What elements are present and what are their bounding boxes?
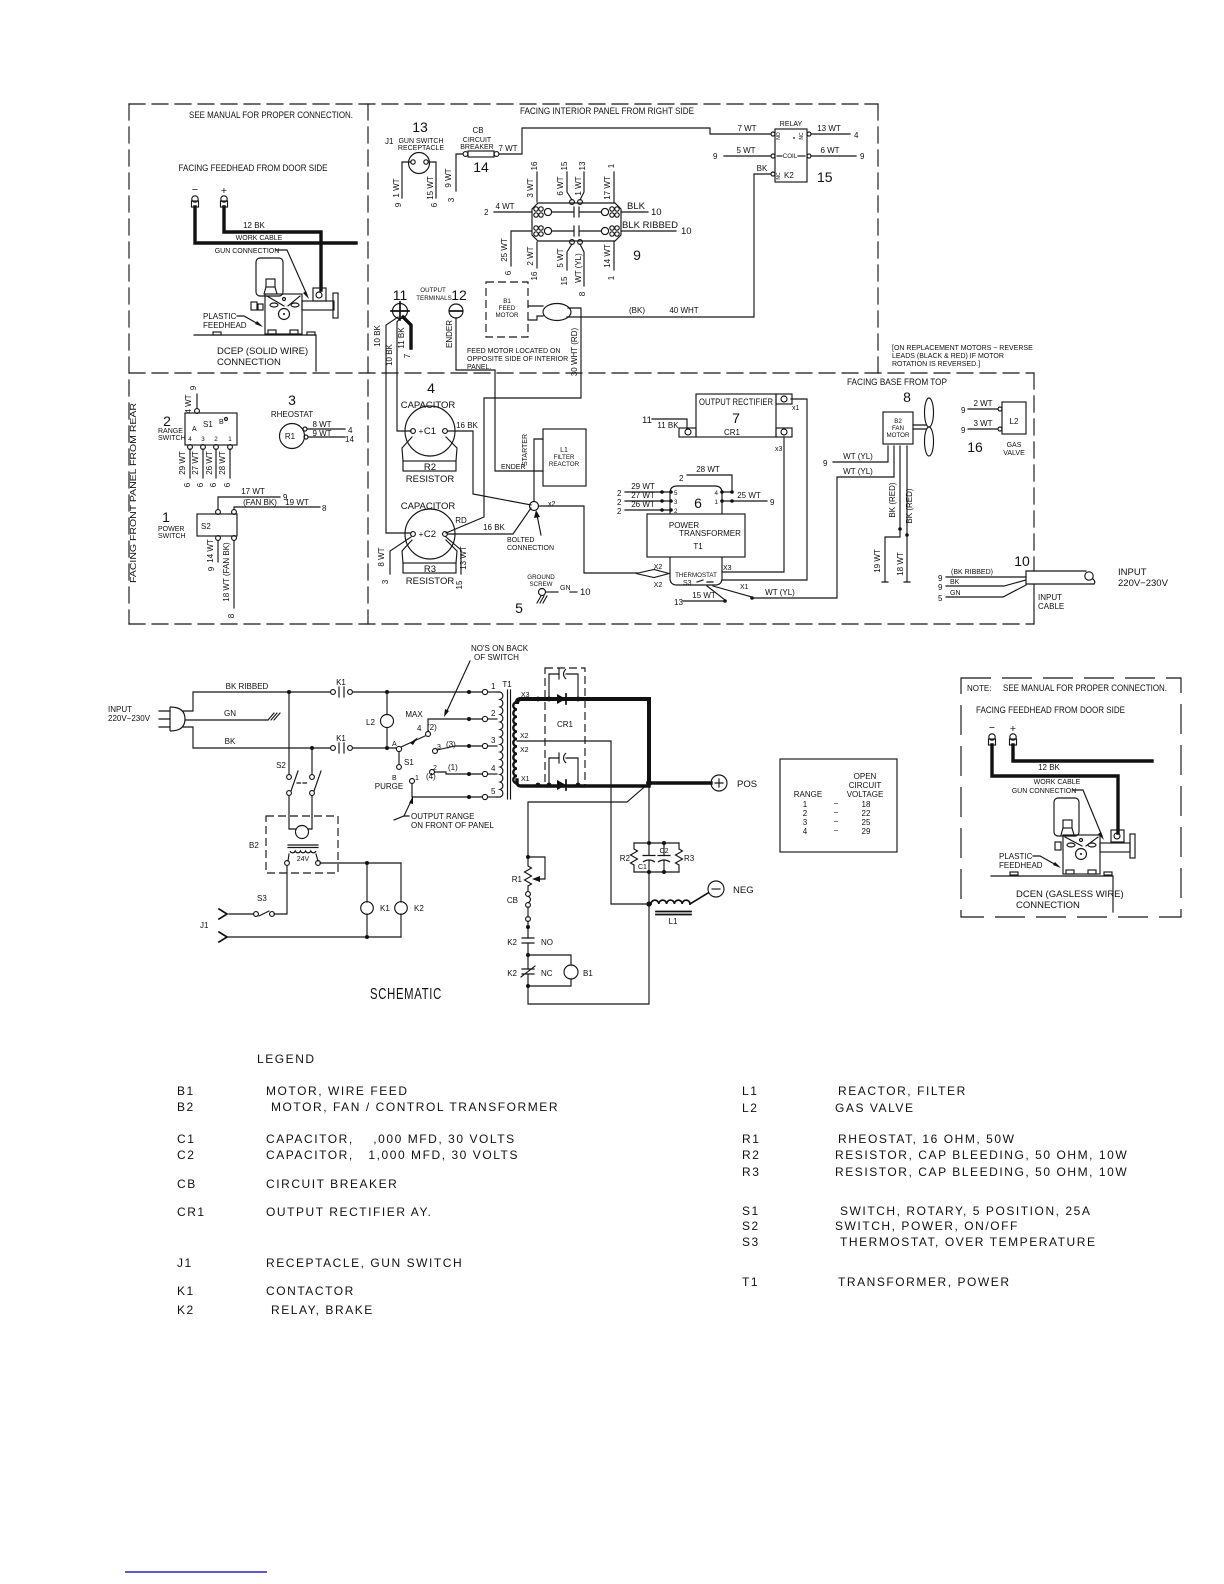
svg-text:15 WT: 15 WT	[692, 591, 716, 600]
svg-text:16: 16	[530, 271, 539, 280]
svg-text:ENDER: ENDER	[445, 320, 454, 348]
svg-text:MAX: MAX	[405, 710, 423, 719]
svg-text:220V−230V: 220V−230V	[108, 714, 151, 723]
svg-text:DCEN (GASLESS WIRE): DCEN (GASLESS WIRE)	[1016, 889, 1124, 900]
svg-text:S3: S3	[257, 894, 267, 903]
svg-text:B1: B1	[177, 1084, 195, 1098]
wire 25 WT 9 from pin 1	[722, 500, 767, 502]
contactor coil K1	[366, 863, 368, 937]
svg-text:NO: NO	[541, 938, 553, 947]
svg-text:B1: B1	[583, 969, 593, 978]
svg-text:13: 13	[578, 161, 587, 170]
wire 14 WT 9 bottom	[217, 541, 219, 562]
svg-text:25 WT: 25 WT	[500, 238, 509, 262]
svg-text:1: 1	[162, 509, 170, 525]
svg-text:2: 2	[484, 208, 489, 217]
X2 tap wire	[517, 741, 646, 904]
svg-text:STARTER: STARTER	[522, 434, 529, 466]
transformer top rounded	[670, 486, 722, 514]
svg-text:2: 2	[803, 809, 808, 818]
svg-text:2: 2	[617, 489, 622, 498]
svg-text:5 WT: 5 WT	[736, 146, 755, 155]
svg-text:B2: B2	[894, 418, 902, 425]
svg-text:INPUT: INPUT	[1118, 567, 1147, 578]
svg-text:(1): (1)	[448, 763, 458, 772]
wire 16 BK from C1 to node	[448, 431, 531, 505]
B2 motor circle	[296, 826, 309, 839]
capacitor C2	[658, 843, 670, 872]
svg-text:S2: S2	[201, 522, 211, 531]
resistor R2	[403, 461, 456, 471]
motor B1 ellipse	[543, 304, 571, 321]
svg-text:BLK RIBBED: BLK RIBBED	[622, 220, 678, 231]
svg-text:GUN SWITCH: GUN SWITCH	[398, 138, 443, 145]
svg-text:RHEOSTAT, 16 OHM, 50W: RHEOSTAT, 16 OHM, 50W	[838, 1132, 1015, 1146]
svg-text:SWITCH: SWITCH	[158, 435, 186, 442]
open circuit voltage table	[780, 759, 897, 852]
svg-text:30 WHT (RD): 30 WHT (RD)	[570, 328, 579, 377]
svg-text:9: 9	[938, 574, 943, 583]
svg-text:x1: x1	[792, 405, 800, 412]
wire 15 WT from J1	[428, 162, 436, 198]
svg-text:L2: L2	[366, 718, 375, 727]
contactor contact K1 bottom	[331, 746, 336, 751]
svg-text:LEGEND: LEGEND	[257, 1052, 316, 1066]
svg-text:(BK RIBBED): (BK RIBBED)	[951, 569, 993, 576]
svg-text:14: 14	[473, 159, 489, 175]
svg-text:PLASTIC: PLASTIC	[203, 312, 237, 321]
svg-text:17 WT: 17 WT	[241, 487, 265, 496]
ground symbol	[268, 713, 280, 720]
svg-text:29 WT: 29 WT	[178, 451, 187, 475]
svg-text:BLK: BLK	[627, 201, 646, 212]
svg-text:X2: X2	[654, 582, 663, 589]
svg-text:GN: GN	[224, 709, 236, 718]
T1 primary tap rows	[467, 690, 471, 694]
svg-text:POS: POS	[737, 779, 757, 790]
svg-text:SWITCH, ROTARY, 5 POSITION, 25: SWITCH, ROTARY, 5 POSITION, 25A	[840, 1204, 1091, 1218]
wires 29/27/26/28 WT with 6 ends	[189, 449, 191, 478]
wire ENDER from terminal 12	[456, 318, 543, 471]
svg-text:10 BK: 10 BK	[385, 343, 394, 365]
svg-text:BOLTED: BOLTED	[507, 537, 535, 544]
svg-text:9: 9	[394, 202, 403, 207]
svg-text:GAS: GAS	[1007, 442, 1022, 449]
svg-text:C1: C1	[424, 426, 436, 437]
wire BLK RIBBED 10	[621, 230, 676, 232]
section border top horizontal	[129, 103, 878, 105]
bottom common rail	[227, 936, 401, 938]
svg-text:J1: J1	[177, 1256, 193, 1270]
bleeder bracket to R3	[402, 540, 457, 563]
rectifier CR1 dashed box	[545, 668, 585, 787]
svg-text:REACTOR: REACTOR	[549, 461, 580, 468]
wire BK RIBBED rail	[183, 692, 330, 711]
svg-text:220V−230V: 220V−230V	[1118, 578, 1169, 589]
svg-text:R2: R2	[620, 854, 631, 863]
svg-text:FEEDHEAD: FEEDHEAD	[203, 321, 247, 330]
svg-text:A: A	[392, 741, 397, 748]
svg-text:13 WT: 13 WT	[817, 124, 841, 133]
svg-text:16 BK: 16 BK	[456, 421, 478, 430]
svg-text:RHEOSTAT: RHEOSTAT	[271, 410, 313, 419]
svg-text:13 WT: 13 WT	[459, 546, 468, 570]
svg-text:15: 15	[455, 580, 464, 589]
svg-text:GUN CONNECTION: GUN CONNECTION	[215, 248, 280, 255]
svg-text:1: 1	[228, 436, 232, 443]
svg-text:NO: NO	[776, 132, 782, 140]
svg-text:SCHEMATIC: SCHEMATIC	[370, 986, 442, 1003]
T1 core	[508, 690, 511, 799]
svg-text:5: 5	[515, 600, 523, 616]
svg-text:SWITCH: SWITCH	[158, 533, 186, 540]
B2 transformer core	[288, 845, 318, 848]
svg-text:5: 5	[674, 490, 678, 497]
wires BK (RED)	[899, 446, 901, 529]
contact cluster right row1	[610, 207, 614, 211]
svg-text:NEG: NEG	[733, 885, 754, 896]
svg-text:NC: NC	[799, 132, 805, 140]
B2 transformer winding 24V	[290, 851, 316, 853]
wire BK rail	[183, 727, 330, 748]
svg-text:27 WT: 27 WT	[631, 491, 655, 500]
svg-text:10: 10	[651, 207, 662, 218]
svg-text:−: −	[192, 184, 198, 196]
svg-text:THERMOSTAT, OVER TEMPERATURE: THERMOSTAT, OVER TEMPERATURE	[840, 1235, 1097, 1249]
svg-text:(BK): (BK)	[629, 306, 645, 315]
svg-text:CR1: CR1	[177, 1205, 206, 1219]
svg-text:28 WT: 28 WT	[696, 465, 720, 474]
wire 14 WT 1 bottom	[613, 242, 615, 270]
wire 5 WT to relay coil	[724, 155, 771, 157]
svg-text:WT (YL): WT (YL)	[843, 467, 873, 476]
svg-text:GN: GN	[950, 590, 961, 597]
svg-text:14 WT: 14 WT	[206, 539, 215, 563]
svg-text:RESISTOR: RESISTOR	[406, 576, 455, 587]
svg-text:10: 10	[580, 587, 591, 598]
svg-text:9: 9	[189, 385, 198, 390]
svg-text:18 WT (FAN BK): 18 WT (FAN BK)	[222, 542, 231, 602]
svg-text:15 WT: 15 WT	[426, 176, 435, 200]
svg-text:3: 3	[288, 392, 296, 408]
svg-text:19 WT: 19 WT	[873, 549, 882, 573]
svg-text:K1: K1	[177, 1284, 195, 1298]
svg-text:SCREW: SCREW	[529, 581, 552, 588]
wire WT (YL) from thermostat	[713, 586, 752, 597]
svg-text:C2: C2	[660, 848, 669, 855]
filter reactor L1 box	[543, 429, 586, 486]
svg-text:1 WT: 1 WT	[574, 176, 583, 195]
relay contact K2 NC	[521, 966, 535, 977]
svg-text:9: 9	[633, 247, 641, 263]
svg-text:+: +	[419, 427, 424, 436]
svg-text:3: 3	[447, 197, 456, 202]
svg-text:−: −	[834, 799, 839, 808]
svg-text:BK: BK	[225, 737, 236, 746]
svg-text:2 WT: 2 WT	[526, 246, 535, 265]
svg-text:T1: T1	[742, 1275, 759, 1289]
svg-text:10: 10	[681, 226, 692, 237]
svg-text:C1: C1	[638, 864, 647, 871]
svg-text:R2: R2	[424, 462, 436, 473]
svg-text:x3: x3	[775, 446, 783, 453]
contactor body	[532, 203, 621, 241]
wire 15 WT 13 from thermostat	[707, 586, 725, 600]
svg-text:ENDER: ENDER	[501, 464, 526, 471]
CR1 lower capacitor loop	[549, 758, 578, 785]
svg-text:CONNECTION: CONNECTION	[217, 357, 281, 368]
wire 16 BK from C2 to node	[448, 508, 531, 534]
svg-text:B: B	[219, 419, 224, 426]
svg-text:K2: K2	[414, 904, 424, 913]
svg-text:3: 3	[201, 436, 205, 443]
svg-text:12 BK: 12 BK	[243, 221, 265, 230]
svg-text:4: 4	[348, 426, 353, 435]
svg-text:1: 1	[607, 275, 616, 280]
wire 13 WT 15	[446, 537, 461, 574]
svg-text:GN: GN	[560, 585, 571, 592]
NEG output	[708, 881, 724, 897]
feedhead feet	[268, 330, 276, 334]
svg-text:A: A	[192, 426, 197, 433]
svg-text:3: 3	[803, 818, 808, 827]
svg-text:12: 12	[451, 287, 467, 303]
svg-text:NC: NC	[776, 172, 782, 180]
svg-text:17 WT: 17 WT	[603, 176, 612, 200]
contact gap symbols row2	[552, 226, 601, 236]
contact cluster left row2	[534, 226, 538, 230]
svg-text:R1: R1	[285, 432, 296, 441]
svg-text:FEEDHEAD: FEEDHEAD	[999, 861, 1043, 870]
svg-text:12 BK: 12 BK	[1038, 763, 1060, 772]
svg-text:2: 2	[163, 413, 171, 429]
svg-text:K1: K1	[336, 734, 346, 743]
wire 11 BK into rectifier	[652, 419, 687, 429]
blue footer line	[125, 1571, 267, 1573]
svg-text:4: 4	[417, 724, 422, 733]
svg-text:4: 4	[427, 380, 435, 396]
svg-text:5 WT: 5 WT	[556, 248, 565, 267]
svg-text:R3: R3	[424, 564, 436, 575]
svg-text:19 WT: 19 WT	[285, 498, 309, 507]
resistor R3 zigzag	[676, 843, 683, 872]
svg-text:5: 5	[491, 787, 496, 796]
motor/control transformer B2 dashed box	[266, 816, 338, 873]
wire 3 WT 9	[968, 428, 998, 430]
svg-text:RD: RD	[455, 516, 467, 525]
svg-text:11: 11	[393, 287, 408, 303]
wire POS bus to network to L1 node	[648, 783, 650, 904]
svg-text:B2: B2	[249, 841, 259, 850]
svg-text:X2: X2	[654, 564, 663, 571]
wire 12 BK (plus to gun)	[224, 207, 321, 290]
note box dashed border	[961, 678, 1181, 917]
wire 18 WT (FAN BK) 8 bottom	[233, 541, 235, 608]
wire 8 WT 3	[390, 537, 411, 574]
wire 17 WT 9	[218, 497, 280, 509]
svg-text:FEED MOTOR LOCATED ON: FEED MOTOR LOCATED ON	[467, 348, 560, 355]
svg-text:8 WT: 8 WT	[312, 420, 331, 429]
svg-text:X2: X2	[520, 747, 529, 754]
section border mid horizontal y=373	[129, 372, 1034, 374]
svg-text:4: 4	[491, 764, 496, 773]
wire WT (YL) 9 first	[833, 446, 888, 462]
gun connection bar and block	[302, 301, 334, 310]
svg-text:GROUND: GROUND	[527, 574, 555, 581]
svg-text:TERMINALS: TERMINALS	[416, 295, 451, 302]
svg-text:VALVE: VALVE	[1003, 450, 1025, 457]
wire STARTER	[534, 439, 543, 501]
svg-text:SEE MANUAL FOR PROPER CONNECTI: SEE MANUAL FOR PROPER CONNECTION.	[1003, 683, 1167, 694]
wire GN 5	[946, 585, 1026, 597]
rheostat R1 in schematic	[526, 855, 530, 859]
svg-text:10: 10	[1014, 553, 1030, 569]
section border left vertical	[128, 104, 130, 624]
svg-text:2: 2	[433, 765, 437, 772]
svg-text:K2: K2	[507, 969, 517, 978]
coil wires bottom 5 WT 15 / WT (YL) 8	[567, 244, 572, 270]
svg-text:MOTOR, WIRE FEED: MOTOR, WIRE FEED	[266, 1084, 409, 1098]
svg-text:40 WHT: 40 WHT	[669, 306, 698, 315]
svg-text:9 WT: 9 WT	[444, 168, 453, 187]
svg-text:CONTACTOR: CONTACTOR	[266, 1284, 355, 1298]
svg-text:7: 7	[732, 410, 740, 426]
svg-text:15: 15	[560, 161, 569, 170]
feet	[1066, 870, 1074, 874]
svg-text:8: 8	[227, 613, 236, 618]
svg-text:TRANSFORMER, POWER: TRANSFORMER, POWER	[838, 1275, 1011, 1289]
svg-text:3: 3	[674, 499, 678, 506]
svg-text:8: 8	[578, 291, 587, 296]
wire 9 WT 14	[308, 436, 345, 438]
wire 4 WT 9 top of S1	[196, 394, 198, 408]
svg-text:BREAKER: BREAKER	[460, 144, 493, 151]
svg-text:ON FRONT OF PANEL: ON FRONT OF PANEL	[411, 821, 494, 830]
svg-text:X3: X3	[723, 565, 732, 572]
svg-text:MOTOR, FAN / CONTROL TRANSFORM: MOTOR, FAN / CONTROL TRANSFORMER	[271, 1100, 559, 1114]
svg-text:4 WT: 4 WT	[184, 394, 193, 413]
svg-text:BK (RED): BK (RED)	[905, 488, 914, 523]
svg-text:9: 9	[713, 152, 718, 161]
svg-text:3 WT: 3 WT	[973, 419, 992, 428]
svg-text:R3: R3	[742, 1165, 760, 1179]
svg-text:S3: S3	[742, 1235, 760, 1249]
svg-text:CABLE: CABLE	[1038, 602, 1064, 611]
svg-text:VOLTAGE: VOLTAGE	[847, 790, 884, 799]
svg-text:GUN CONNECTION: GUN CONNECTION	[1012, 788, 1077, 795]
S1 bottom pins	[188, 445, 193, 450]
bleeder network rails	[634, 843, 679, 872]
wire 6 WT from relay coil	[811, 155, 856, 157]
svg-text:3 WT: 3 WT	[526, 178, 535, 197]
svg-text:CIRCUIT: CIRCUIT	[463, 137, 492, 144]
svg-text:REACTOR, FILTER: REACTOR, FILTER	[838, 1084, 967, 1098]
table line	[194, 335, 316, 371]
svg-text:15: 15	[817, 169, 833, 185]
svg-text:R3: R3	[684, 854, 695, 863]
svg-text:CB: CB	[507, 896, 518, 905]
svg-text:OPPOSITE SIDE OF INTERIOR: OPPOSITE SIDE OF INTERIOR	[467, 356, 568, 363]
section border divider vertical x=368	[367, 104, 369, 624]
svg-text:PLASTIC: PLASTIC	[999, 852, 1033, 861]
svg-text:1: 1	[803, 800, 808, 809]
svg-text:11: 11	[642, 415, 652, 426]
wire 9 WT 3 from CB	[456, 154, 463, 191]
X3 wire from rectifier down to thermostat	[722, 437, 784, 572]
svg-text:FACING FEEDHEAD FROM DOOR SIDE: FACING FEEDHEAD FROM DOOR SIDE	[179, 163, 328, 174]
svg-text:6: 6	[694, 495, 702, 511]
svg-text:2: 2	[679, 474, 684, 483]
svg-text:CIRCUIT BREAKER: CIRCUIT BREAKER	[266, 1177, 398, 1191]
motor B1 branch	[528, 955, 571, 965]
svg-text:24V: 24V	[297, 856, 310, 863]
svg-text:RANGE: RANGE	[158, 428, 183, 435]
svg-text:2 WT: 2 WT	[973, 399, 992, 408]
svg-text:CIRCUIT: CIRCUIT	[849, 781, 882, 790]
svg-text:FEED: FEED	[499, 305, 516, 312]
svg-text:6 WT: 6 WT	[820, 146, 839, 155]
svg-text:LEADS (BLACK & RED) IF MOTOR: LEADS (BLACK & RED) IF MOTOR	[892, 353, 1004, 360]
svg-text:CR1: CR1	[724, 428, 741, 437]
svg-text:−: −	[834, 817, 839, 826]
svg-text:9: 9	[961, 406, 966, 415]
svg-text:B2: B2	[177, 1100, 195, 1114]
svg-text:X3: X3	[521, 692, 530, 699]
svg-text:−: −	[834, 808, 839, 817]
svg-text:SEE MANUAL FOR PROPER CONNECTI: SEE MANUAL FOR PROPER CONNECTION.	[189, 110, 353, 121]
svg-text:INPUT: INPUT	[108, 705, 132, 714]
svg-text:6: 6	[223, 482, 232, 487]
svg-text:29: 29	[862, 827, 871, 836]
filter reactor L1	[651, 900, 690, 904]
svg-text:K2: K2	[784, 171, 794, 180]
svg-text:11 BK: 11 BK	[657, 421, 679, 430]
svg-text:POWER: POWER	[158, 526, 184, 533]
svg-text:CAPACITOR, ,000 MFD, 30 VOL: CAPACITOR, ,000 MFD, 30 VOLTS	[266, 1132, 516, 1146]
svg-text:2: 2	[617, 498, 622, 507]
svg-text:6: 6	[183, 482, 192, 487]
POS output	[652, 781, 711, 784]
thermostat S3 rounded bottom	[670, 557, 722, 585]
svg-text:+: +	[1010, 723, 1016, 735]
X1 thick bus	[517, 780, 649, 786]
svg-text:X1: X1	[521, 776, 530, 783]
svg-text:FACING BASE FROM TOP: FACING BASE FROM TOP	[847, 377, 947, 388]
feed motor B1 dashed box	[486, 282, 528, 337]
svg-text:WORK CABLE: WORK CABLE	[1034, 779, 1081, 786]
capacitor C1	[643, 843, 655, 872]
svg-text:9: 9	[207, 566, 216, 571]
contact cluster right row2	[610, 226, 614, 230]
svg-text:GAS VALVE: GAS VALVE	[835, 1101, 915, 1115]
svg-text:+: +	[221, 185, 227, 197]
svg-text:S1: S1	[404, 758, 414, 767]
svg-text:S1: S1	[203, 420, 213, 429]
svg-text:NOTE:: NOTE:	[967, 684, 991, 693]
svg-text:X1: X1	[740, 584, 749, 591]
svg-text:10 BK: 10 BK	[373, 324, 382, 346]
svg-text:9 WT: 9 WT	[312, 429, 331, 438]
X3 bus down to POS junction	[647, 699, 651, 783]
svg-text:TRANSFORMER: TRANSFORMER	[679, 529, 741, 538]
svg-text:OUTPUT: OUTPUT	[420, 287, 446, 294]
svg-text:22: 22	[862, 809, 871, 818]
svg-text:DCEP (SOLID WIRE): DCEP (SOLID WIRE)	[217, 346, 308, 357]
svg-text:RANGE: RANGE	[794, 790, 822, 799]
svg-text:BK: BK	[950, 579, 960, 586]
svg-text:WT (YL): WT (YL)	[574, 253, 583, 283]
resistor R3	[403, 563, 456, 573]
